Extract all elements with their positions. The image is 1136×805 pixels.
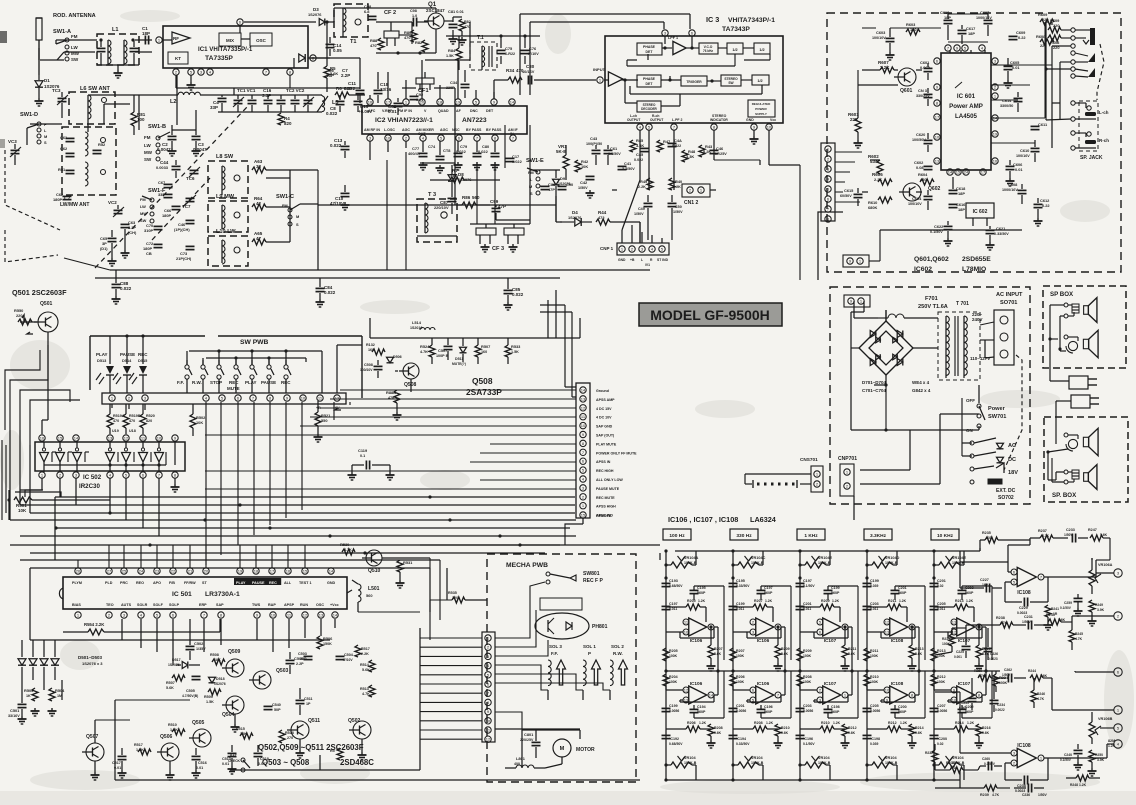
svg-text:R232: R232 [925,751,933,755]
svg-text:0.68/50V: 0.68/50V [669,584,683,588]
resistor R223 100K [931,648,946,661]
svg-text:C229: C229 [1019,606,1028,610]
svg-text:Q602: Q602 [928,186,941,192]
terminal 5 [1100,724,1122,732]
cap C606 [1006,160,1024,186]
resistor R530 [340,542,355,555]
capacitor C201 [796,602,812,611]
svg-text:POWER: POWER [755,107,767,111]
svg-text:S: S [296,222,299,227]
svg-text:C504: C504 [344,653,354,657]
transistor Q509 [222,649,244,677]
SW PWB outline [90,336,362,398]
resistor R47 [657,139,670,152]
voltage labels [970,312,990,361]
svg-text:5.6K: 5.6K [1100,533,1108,537]
wire eq column rail [665,551,667,780]
switch SW1-D [20,112,47,145]
wire [530,170,560,200]
svg-text:MUTE(?): MUTE(?) [452,362,466,366]
resistor R514 [360,660,375,672]
svg-text:AC INPUT: AC INPUT [996,292,1023,298]
resistor R513 [360,685,375,697]
cap C45 [634,148,650,162]
wire eq column rail [866,551,868,780]
wire eq feed [0,0,1,1]
svg-text:R84: R84 [448,48,456,53]
svg-text:R235: R235 [982,531,991,535]
resistor R244 5.6K [1028,669,1052,681]
wire [612,190,716,243]
svg-text:10: 10 [935,135,940,140]
svg-text:R214: R214 [955,721,964,725]
svg-text:C34: C34 [450,80,458,85]
cap C801 [520,730,541,758]
svg-text:VR104: VR104 [885,756,897,760]
inductor L1 [97,27,140,78]
power amp board outline [827,13,1121,272]
svg-text:Q508: Q508 [472,376,493,386]
svg-text:R.W.: R.W. [613,651,623,656]
svg-text:R205: R205 [669,649,678,653]
svg-text:820: 820 [146,419,152,423]
potentiometer VR104D [865,549,899,568]
svg-text:CNS701: CNS701 [800,457,818,462]
wire eq mid junction [932,669,987,672]
svg-text:L.PF 2: L.PF 2 [672,118,682,122]
svg-text:APSS AMP: APSS AMP [596,398,615,402]
diode bridge D701-D704 [851,310,920,385]
svg-text:C62: C62 [60,146,68,151]
svg-text:100: 100 [137,117,145,122]
svg-text:R504: R504 [55,688,65,693]
resistor R45 [630,138,644,152]
op-amp IC108 sum top [1005,538,1096,596]
connector CN9-1 [843,255,869,267]
svg-text:560P: 560P [965,591,974,595]
cap C67 C68 [158,180,173,198]
svg-text:+B: +B [630,258,635,262]
cap C605 [1004,58,1021,88]
potentiometer VR104C [731,549,765,568]
switch SW1-E [526,158,544,196]
svg-text:250V T1.6A: 250V T1.6A [918,304,948,310]
svg-text:C508: C508 [364,363,373,367]
op-amp IC106 row1 [666,607,718,671]
wire bottom left [30,568,640,780]
svg-text:18P: 18P [958,207,965,212]
svg-text:PLAY: PLAY [245,380,257,385]
svg-text:160: 160 [481,350,487,354]
diode D1 [35,75,60,98]
svg-text:SW: SW [140,218,147,223]
switch SW1-A [40,29,80,62]
svg-text:C610: C610 [1020,148,1030,153]
svg-text:5.6K: 5.6K [1058,618,1066,622]
capacitor C199 [662,704,680,713]
terminal 4 [1107,740,1122,748]
svg-text:C61: C61 [610,146,618,151]
svg-text:ROD. ANTENNA: ROD. ANTENNA [53,13,96,19]
svg-text:IC107: IC107 [824,638,837,643]
svg-text:C502: C502 [194,641,204,646]
inductor L501 [352,580,380,612]
svg-text:15: 15 [303,569,308,574]
wire bus above IC501 [20,560,440,640]
resistor R88 [370,38,384,50]
svg-text:SW: SW [728,81,734,85]
cap C75 [497,34,516,64]
resistor R64 [252,196,290,210]
svg-text:R513: R513 [360,687,369,691]
svg-text:SOL 1: SOL 1 [583,644,596,649]
capacitor C201 560P [891,586,926,660]
svg-text:10K: 10K [18,508,27,513]
svg-text:SOLR: SOLR [137,603,148,607]
svg-text:1.5K: 1.5K [511,350,519,354]
svg-text:C240: C240 [1064,753,1072,757]
capacitor C205 [930,602,946,611]
svg-text:L514: L514 [412,320,422,325]
resistor R217 5.6K [707,625,723,671]
svg-text:C193: C193 [669,579,678,583]
cap C504 [336,653,354,662]
wire junction dots [54,495,521,554]
svg-text:1/35V: 1/35V [196,647,206,651]
cap C505 [182,676,201,698]
varicap VC2 [108,200,124,217]
wire [370,58,494,99]
svg-text:1.5K: 1.5K [446,54,454,58]
svg-text:Power AMP: Power AMP [949,103,983,110]
svg-text:C46: C46 [716,146,724,151]
wire eq column rail [933,551,935,780]
svg-text:D1: D1 [44,78,50,83]
connector CNP1 [600,243,669,267]
wire [835,152,862,202]
svg-text:AN7223: AN7223 [462,117,487,124]
svg-text:1/50V: 1/50V [673,210,683,214]
AC input socket SO701 [994,292,1023,365]
capacitor C203 [796,704,814,713]
svg-text:180P: 180P [53,197,63,202]
svg-text:0.02: 0.02 [937,584,944,588]
svg-text:DET: DET [646,50,654,54]
resistor R212 100K [931,674,946,686]
capacitor C201 [930,576,946,588]
svg-text:1.5K: 1.5K [136,748,144,752]
svg-text:100(P)/50: 100(P)/50 [586,142,602,146]
capacitor C236 [1014,784,1048,798]
svg-text:1.2K: 1.2K [967,721,975,725]
svg-text:OUTPUT: OUTPUT [650,118,663,122]
svg-text:R207: R207 [736,649,745,653]
cap C517 [112,748,127,778]
svg-text:IC 602: IC 602 [973,209,988,215]
svg-text:10/16V: 10/16V [522,69,535,74]
potentiometer VR104E [932,549,966,568]
svg-text:1/2: 1/2 [757,79,762,83]
svg-text:V.REF: V.REF [382,109,393,113]
capacitor C238 [1005,758,1048,793]
svg-text:VC3: VC3 [8,139,17,144]
svg-text:4.7/25V: 4.7/25V [714,152,727,156]
svg-text:0.1/50V: 0.1/50V [1060,606,1072,610]
svg-text:APSP: APSP [284,603,295,607]
resistor R608 220 [1048,35,1071,50]
cap C620 [912,132,933,152]
IC2 top pin labels [368,109,494,113]
svg-text:TC2 VC2: TC2 VC2 [286,88,305,93]
EQ mid bus [666,670,1000,672]
resistor A65 [252,231,290,245]
svg-text:5.6K: 5.6K [915,652,923,656]
svg-text:REC: REC [281,380,291,385]
pins under IC1 [173,68,213,75]
svg-text:LPF 1: LPF 1 [668,36,678,40]
cap C86 C90 [541,182,574,192]
svg-text:10: 10 [767,125,772,130]
svg-text:0.1: 0.1 [360,454,365,458]
svg-text:SW1-D: SW1-D [20,112,38,118]
svg-text:R237: R237 [1038,529,1047,533]
svg-text:Ground: Ground [596,389,609,393]
block 1/2 a [727,43,743,54]
svg-text:L9 MW: L9 MW [216,194,235,200]
svg-text:15: 15 [58,436,63,441]
svg-text:FM IF IN: FM IF IN [398,109,412,113]
svg-text:*C196: *C196 [803,737,813,741]
svg-text:R519A: R519A [113,414,125,418]
resistor R535 [430,591,487,603]
svg-text:PLYM: PLYM [72,581,82,585]
svg-text:15: 15 [956,170,961,175]
svg-text:1.2K: 1.2K [832,599,840,603]
svg-text:R-ch: R-ch [1099,138,1109,143]
resistor R49 [638,178,653,190]
svg-text:3.3K: 3.3K [636,143,644,148]
svg-text:2.2K: 2.2K [874,177,882,182]
cap C619 [940,10,953,40]
cap C46b [710,146,728,156]
svg-text:100/10V: 100/10V [360,368,373,372]
svg-text:15: 15 [581,513,586,518]
svg-text:TC3: TC3 [52,88,61,93]
svg-text:1P: 1P [306,702,311,706]
svg-text:MECHA PWB: MECHA PWB [506,562,548,569]
svg-text:(D1): (D1) [100,246,108,251]
svg-text:100K: 100K [803,680,812,684]
svg-text:10: 10 [486,718,491,723]
svg-text:10: 10 [885,688,890,693]
svg-text:L801: L801 [516,756,526,761]
pin 7 [263,69,269,75]
svg-text:33P: 33P [300,657,307,661]
cap C72 [143,241,163,256]
svg-text:KT: KT [175,56,181,61]
mecha connector [482,632,495,742]
svg-text:0.0022: 0.0022 [995,708,1005,712]
svg-text:RUN: RUN [300,603,308,607]
cap C15 [354,95,373,114]
svg-text:TA7343P: TA7343P [722,26,750,33]
switches FF RW STOP RECMUTE PLAY PAUSE REC [177,345,362,393]
svg-text:18V: 18V [1008,470,1018,476]
svg-text:SP BOX: SP BOX [1050,291,1074,298]
svg-text:12: 12 [486,737,491,742]
svg-text:IC 3: IC 3 [706,15,719,24]
inductor L2 [139,92,218,105]
inductor L10 LW [208,229,248,266]
svg-text:0.05: 0.05 [333,48,342,53]
svg-text:C49: C49 [638,207,645,211]
svg-text:12: 12 [885,620,890,625]
svg-text:REC: REC [269,581,277,585]
resistor R206 1.2K [666,721,711,732]
svg-text:1000/16V: 1000/16V [1002,188,1018,192]
wire [290,170,318,204]
resistor R208 5.6K [707,724,723,748]
svg-text:/V1: /V1 [645,263,650,267]
cap C99 [490,199,506,220]
SP jack box [1071,101,1109,161]
svg-text:19: 19 [993,132,998,137]
svg-text:10: 10 [684,630,689,635]
svg-text:0.01: 0.01 [1015,167,1023,172]
svg-text:SAP: SAP [216,603,224,607]
svg-text:R247: R247 [1088,528,1097,532]
svg-text:C262: C262 [1004,668,1012,672]
svg-text:TC7: TC7 [182,204,191,209]
svg-text:R248 1.2K: R248 1.2K [1070,783,1087,787]
svg-text:5.6K: 5.6K [362,668,370,672]
cap C41 [618,161,636,171]
svg-text:SW1-A: SW1-A [53,29,71,35]
svg-text:0.33/50V: 0.33/50V [736,742,750,746]
IC3 box [605,36,783,123]
wire to mecha connector [420,638,482,739]
svg-text:PAUSE: PAUSE [261,380,276,385]
wire [640,130,769,180]
speaker box bottom outline [1044,417,1128,502]
svg-text:C199: C199 [669,704,678,708]
svg-text:CHECK: CHECK [228,759,241,763]
bridge inner diamond [869,331,903,365]
capacitor C205 [863,704,881,713]
resistor R225 5.6K [975,625,991,671]
svg-text:L.OSC: L.OSC [384,128,395,132]
svg-text:C41: C41 [624,161,632,166]
rod antenna [36,13,96,75]
svg-text:0.022: 0.022 [672,144,681,148]
wire sp top [1048,305,1066,381]
svg-text:480: 480 [920,177,927,182]
cap C82 [388,98,403,115]
svg-text:3300/50: 3300/50 [1000,104,1013,108]
svg-text:1.0: 1.0 [412,14,417,18]
svg-text:100 Hz: 100 Hz [669,533,685,539]
svg-text:14: 14 [333,613,338,618]
svg-text:CNP 1: CNP 1 [600,246,614,251]
capacitor C255 [959,678,977,710]
svg-text:C234: C234 [997,703,1005,707]
svg-text:R211: R211 [870,649,878,653]
inductor L514 [410,320,435,330]
potentiometer VR104E [798,549,832,568]
svg-text:SW: SW [71,57,79,62]
svg-text:2.2P: 2.2P [296,662,304,666]
svg-text:SW801: SW801 [583,571,600,577]
wire am bus [266,125,562,270]
svg-text:CN 3: CN 3 [918,88,928,93]
potentiometer VR104A [664,549,698,568]
connector CN9-2 [844,295,870,307]
resistor R602 [868,154,883,174]
svg-text:C197: C197 [669,602,678,606]
resistor R247 5.6K [1088,528,1110,560]
resistor R44 [596,210,640,225]
capacitor C231 [1013,615,1044,630]
resistor R6 [335,86,365,98]
wire fan to connector [205,390,576,489]
svg-text:33: 33 [256,164,261,169]
switch SW801 [546,571,603,584]
svg-text:IR2C30: IR2C30 [79,483,100,490]
speaker SP2 tweeter [1048,458,1097,489]
transistor Q506 [157,734,179,780]
svg-text:1/50V: 1/50V [634,212,644,216]
svg-text:Q505: Q505 [192,720,205,726]
svg-text:0.0056: 0.0056 [736,709,746,713]
wire long busses [64,163,650,278]
IC2 bottom pin labels [364,128,519,136]
capacitor C226 [984,628,999,661]
cap C608 [1002,182,1027,204]
svg-text:R524: R524 [420,344,430,349]
IC3 pin 3 [662,30,668,44]
wire eq mid junction [664,669,719,672]
svg-text:6.8: 6.8 [364,9,370,14]
svg-text:12: 12 [303,613,308,618]
svg-text:33P: 33P [210,105,218,110]
svg-text:C516: C516 [198,761,207,765]
svg-text:1S2016: 1S2016 [410,326,422,330]
svg-text:R212: R212 [848,726,857,730]
resistor VR1 [556,144,569,180]
svg-text:R554 2.2K: R554 2.2K [84,622,105,627]
svg-text:47: 47 [256,236,261,241]
svg-text:POWER ONLY FF MUTE: POWER ONLY FF MUTE [596,451,637,455]
svg-text:REC: REC [229,380,239,385]
svg-text:C517: C517 [112,761,121,765]
svg-text:SOLP: SOLP [169,603,180,607]
pin labels [316,406,340,410]
wire [622,180,662,243]
IC601 box [941,53,991,170]
IC501 bottom pin names [72,603,339,607]
svg-text:Q510: Q510 [368,568,381,574]
svg-text:C196: C196 [764,705,773,709]
resistor R84 1.5K [446,36,462,70]
svg-text:R244: R244 [1028,669,1036,673]
svg-text:4 DC 15V: 4 DC 15V [596,407,612,411]
svg-text:4.7K: 4.7K [420,350,428,354]
svg-text:AFC: AFC [368,109,376,113]
resistor R243 5.6K [1046,613,1072,625]
cap C66 [162,206,181,218]
svg-text:C98: C98 [410,9,417,13]
svg-text:L1: L1 [112,27,119,33]
